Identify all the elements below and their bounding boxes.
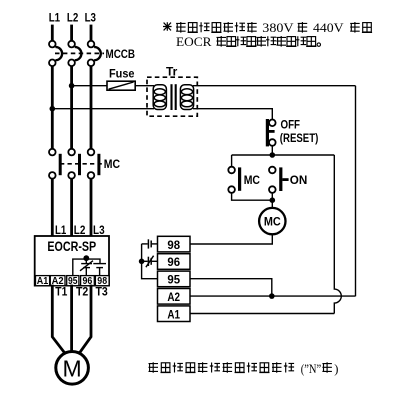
svg-text:T1: T1 [55, 285, 67, 299]
svg-text:MC: MC [104, 157, 121, 171]
terminal block 95 [158, 271, 191, 287]
EOCR terminal A2 [50, 276, 65, 288]
svg-text:MC: MC [244, 173, 261, 187]
wire inner rail with hop over A2 wire [334, 155, 341, 314]
contactor MC pole 3 contacts [88, 149, 95, 179]
wire L1 MCCB to MC contactor [51, 66, 54, 149]
svg-text:(”N”: (”N” [301, 362, 322, 376]
wire L2 MC to EOCR [70, 179, 73, 236]
EOCR internal wire dot to NC contact [85, 258, 87, 263]
svg-text:EOCR-SP: EOCR-SP [47, 239, 96, 254]
transformer Tr primary winding [153, 85, 166, 110]
svg-text:L3: L3 [93, 223, 105, 237]
motor M [56, 352, 89, 385]
wire OFF to junction [271, 146, 273, 155]
transformer Tr dashed enclosure [147, 77, 197, 116]
pushbutton OFF (RESET) normally-closed [266, 119, 276, 146]
MCCB dashed trip link [55, 52, 104, 54]
relay EOCR-SP enclosure [35, 236, 109, 286]
svg-text:ON: ON [290, 173, 308, 187]
svg-text:440V: 440V [313, 21, 344, 35]
svg-text:MCCB: MCCB [106, 47, 136, 61]
terminal block 96 [158, 254, 191, 270]
NC contact symbol with slash at terminal 96 [142, 256, 158, 268]
wire ON bottom to junction [271, 193, 273, 200]
wire Tr secondary top to right rail [193, 85, 356, 87]
EOCR terminal A1 [36, 276, 50, 288]
svg-text:T2: T2 [76, 285, 89, 299]
MCCB pole 3 contacts and arc [88, 41, 101, 66]
bottom caption: diagram shows de-energized state (N type) [149, 362, 159, 373]
auxiliary contact MC (holding) [228, 167, 241, 193]
svg-text:L2: L2 [67, 11, 79, 25]
wire terminal 95 right [190, 279, 272, 296]
svg-text:96: 96 [167, 255, 180, 269]
wire L1 supply stub [51, 25, 54, 41]
svg-text:A2: A2 [167, 290, 180, 304]
wire terminal A1 to inner rail [190, 313, 334, 315]
contactor MC pole 3 moving bar [97, 154, 100, 175]
svg-text:A1: A1 [167, 307, 180, 321]
junction dot on common rail [139, 259, 145, 265]
EOCR terminal 95 [67, 276, 79, 288]
wire terminal A2 to outer rail [190, 295, 356, 297]
NO contact symbol at terminal 98 [142, 239, 158, 248]
wire right outer rail down [355, 86, 357, 297]
junction dot 95/A2 [269, 293, 275, 299]
svg-text:A1: A1 [37, 276, 49, 287]
contactor MC pole 1 contacts [49, 149, 56, 179]
wire T3 to motor [79, 285, 91, 354]
svg-text:Fuse: Fuse [109, 67, 135, 81]
svg-text:L2: L2 [74, 223, 86, 237]
svg-text:L1: L1 [55, 223, 67, 237]
svg-text:T3: T3 [96, 285, 109, 299]
contactor MC pole 2 moving bar [78, 154, 81, 175]
contactor MC dashed link [60, 163, 102, 165]
wire L3 supply stub [90, 25, 93, 41]
transformer Tr core [172, 84, 176, 110]
MCCB pole 1 contacts and arc [49, 41, 62, 66]
wire MC coil to terminal 98 [190, 234, 272, 244]
wire fuse to transformer [135, 85, 154, 87]
svg-text:98: 98 [167, 238, 180, 252]
terminal block 98 [158, 236, 191, 252]
note line 1 CJK text (assumed line voltage 380V or 440V) [176, 22, 186, 33]
wire L1 tap to transformer [52, 108, 154, 110]
svg-text:OFF: OFF [281, 118, 301, 132]
terminal block A2 [158, 289, 191, 305]
MCCB pole 2 contacts and arc [68, 41, 81, 66]
svg-text:(RESET): (RESET) [280, 131, 319, 145]
wire common rail left of terminal block [142, 244, 158, 279]
svg-text:380V: 380V [262, 21, 293, 35]
EOCR terminal 98 [95, 276, 109, 288]
note reference mark (star) [163, 22, 172, 31]
svg-text:M: M [63, 355, 82, 381]
wire horizontal control bus [232, 154, 335, 156]
wire L3 MC to EOCR [90, 179, 93, 236]
junction dot above MC coil [270, 197, 276, 203]
EOCR internal common node dot [83, 255, 89, 261]
contactor MC pole 2 contacts [68, 149, 75, 179]
EOCR internal NC contact (to 96) with slash [80, 261, 93, 276]
coil MC [259, 208, 285, 234]
wire branch down to MC aux contact [231, 155, 233, 167]
svg-text:95: 95 [167, 273, 180, 287]
wire L2 supply stub [70, 25, 73, 41]
contactor MC pole 1 moving bar [59, 154, 62, 175]
svg-text:MC: MC [264, 215, 281, 229]
svg-text:Tr: Tr [166, 64, 178, 78]
wire T2 to motor [70, 285, 73, 351]
EOCR internal common bracket wire [73, 259, 100, 276]
transformer Tr secondary winding [180, 85, 193, 110]
wire T1 to motor [52, 285, 65, 354]
wire Tr secondary bottom to OFF button [193, 109, 272, 120]
wire MC aux bottom to junction [232, 193, 273, 200]
EOCR terminal 96 [81, 276, 95, 288]
junction dot on L2 feeding fuse [69, 83, 75, 89]
wire L2 MCCB to MC contactor [70, 66, 73, 149]
junction dot on L1 feeding transformer [50, 106, 56, 112]
fuse F1 body [107, 81, 135, 90]
svg-text:): ) [334, 362, 338, 376]
terminal block A1 [158, 306, 191, 322]
junction dot below OFF [270, 152, 276, 158]
svg-text:L1: L1 [49, 11, 61, 25]
wire L1 MC to EOCR [51, 179, 54, 236]
wire junction to MC coil [271, 200, 273, 208]
svg-text:L3: L3 [85, 11, 97, 25]
pushbutton ON normally-open [269, 167, 289, 193]
svg-text:EOCR: EOCR [176, 35, 212, 49]
wire L3 MCCB to MC contactor [90, 66, 93, 149]
EOCR internal NO contact (to 98) [93, 264, 106, 276]
wire L2 tap to fuse [72, 85, 107, 87]
